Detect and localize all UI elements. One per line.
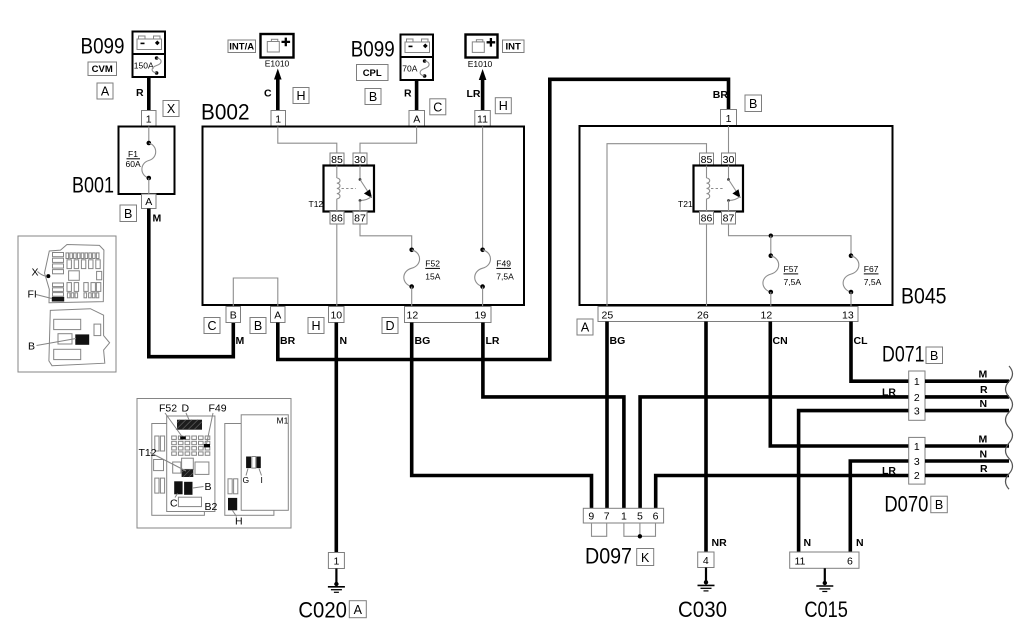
wire (B002 internal) relay 86 to pin 10 [336,224,338,306]
connector H highlighted [228,498,237,510]
svg-text:C030: C030 [678,597,727,622]
wire N right of D070 pin 3 [925,459,1009,463]
svg-text:B045: B045 [901,284,947,309]
svg-text:B099: B099 [81,34,125,59]
svg-text:13: 13 [842,310,854,322]
svg-text:A: A [274,310,281,322]
svg-text:INT/A: INT/A [229,42,254,53]
ground point E1010 (INT/A) [261,34,294,69]
pin A of B002 (top) [409,111,425,127]
svg-text:60A: 60A [126,159,141,169]
svg-text:1: 1 [275,114,281,126]
label INT/A [228,40,256,53]
svg-text:C: C [264,88,272,100]
label A (boxed) at C020 [349,601,366,618]
svg-text:D097: D097 [585,544,632,569]
svg-text:C020: C020 [298,597,347,622]
svg-text:C: C [433,100,442,114]
svg-text:M1: M1 [277,416,289,426]
wire BG from B045 pin 25 to D097 pin 7 [605,322,609,509]
label CPL [357,65,389,81]
svg-text:CVM: CVM [92,64,113,75]
wire CN from B045 pin 12 to D070 pin 1 [770,322,908,447]
svg-text:26: 26 [697,310,709,322]
svg-text:B: B [254,319,262,333]
connector G/I [246,457,251,469]
pin 10 of B002 (bottom) [329,307,345,323]
svg-text:15A: 15A [425,271,440,281]
label B (boxed) under B002 [250,318,266,334]
label B (boxed) at D070 [931,496,948,513]
svg-text:7: 7 [604,511,610,523]
svg-text:INT: INT [506,42,522,53]
wire M right of D070 pin 1 [925,444,1009,448]
fuse F67 7,5A [843,253,881,306]
svg-text:BG: BG [610,335,626,347]
relay C (black) [174,481,182,494]
inset: B002 fuse/relay location drawing [137,399,291,529]
label B (boxed) at B045 pin 1 [745,95,762,112]
wire break squiggle at right edge [1006,366,1013,489]
svg-text:F57: F57 [784,264,799,274]
relay T21 [678,153,743,225]
svg-text:E1010: E1010 [265,59,290,69]
svg-text:F1: F1 [128,149,138,159]
svg-text:CPL: CPL [363,68,382,79]
label A (boxed) [97,83,113,99]
svg-text:86: 86 [331,213,343,225]
svg-text:CL: CL [854,335,869,347]
label B (boxed) [120,205,137,222]
bridge D097 pins 9-7 [592,523,607,536]
wire N from D070 pin 3 to C015 pin 6 [850,461,908,552]
svg-text:LR: LR [486,335,500,347]
svg-text:K: K [641,551,650,565]
svg-text:X: X [167,102,176,116]
label C (boxed) under B002 [204,318,220,334]
svg-text:T21: T21 [678,199,693,209]
label INT [503,40,525,53]
fusebox outline (top drawing) [45,245,104,303]
svg-text:A: A [354,603,363,617]
svg-text:I: I [261,475,263,485]
fuse grid [172,436,177,439]
label B (boxed) [365,89,381,105]
wire M right of D071 pin 1 [925,379,1009,383]
svg-text:86: 86 [701,213,713,225]
svg-text:A: A [581,321,590,335]
socket B2 [178,497,201,506]
svg-text:2: 2 [914,470,920,482]
wire N from D071 pin 3 to C015 pin 11 [799,411,909,552]
svg-text:NR: NR [712,537,728,549]
svg-text:B: B [749,97,757,111]
svg-text:1: 1 [621,511,627,523]
battery B099 (CPL) with 70A fuse [401,35,434,81]
wire (B002 internal) pinA to relay 30 [360,127,417,154]
relay B (black) [184,482,192,495]
svg-text:M: M [979,433,988,445]
svg-text:BR: BR [713,89,729,101]
svg-text:B: B [369,90,377,104]
svg-text:C015: C015 [804,597,848,622]
right rear panel [225,424,274,516]
label D (boxed) under B002 [382,318,398,334]
svg-text:11: 11 [477,114,488,126]
svg-text:9: 9 [588,511,594,523]
label A (boxed) under B045 [577,319,593,335]
wire LR arrow to E1010 [467,69,487,111]
wire LR from D097 pin 6 to D070 pin 2 [656,476,909,509]
svg-text:7,5A: 7,5A [496,271,514,281]
svg-text:FI: FI [28,289,37,301]
svg-text:A: A [145,196,152,208]
wire LR from B002 pin 19 to D097 pin 1 [483,323,624,509]
wire (B045 internal) relay 85 up-left to pin 25 [607,144,707,306]
svg-text:6: 6 [847,556,853,568]
svg-text:85: 85 [331,154,343,166]
wire (B045 internal) relay 87 to F57/F67 [729,224,852,256]
svg-text:1: 1 [914,376,920,388]
svg-text:T12: T12 [309,199,324,209]
fuse F57 7,5A [763,253,801,306]
svg-text:H: H [311,319,320,333]
wire (B002 internal) relay 87 to F52 [360,224,412,250]
wire N right of D071 pin 3 [925,409,1009,413]
svg-text:19: 19 [475,310,487,322]
svg-text:R: R [980,384,988,396]
label CVM [88,62,117,76]
svg-text:C: C [170,498,178,510]
connector D071 [909,371,925,420]
fuse F1 60A [126,127,156,195]
svg-text:BR: BR [280,335,296,347]
bridge D097 pins 1-5-6 [624,523,656,536]
battery B099 (CVM) with 150A fuse [133,32,166,78]
wire R right of D070 pin 2 [925,474,1009,478]
svg-text:F49: F49 [209,403,227,415]
svg-text:H: H [296,89,305,103]
relay T12 [309,153,375,225]
fuse F49 highlighted [204,444,210,447]
svg-text:7,5A: 7,5A [784,277,802,287]
relay sockets row [173,462,181,473]
svg-text:N: N [804,537,812,549]
svg-text:D071: D071 [882,342,925,367]
module M1 panel [241,415,288,511]
wire M from B001 to B002 pin B [149,209,234,357]
svg-text:7,5A: 7,5A [864,277,882,287]
svg-text:12: 12 [407,310,419,322]
svg-text:B001: B001 [72,173,114,198]
svg-text:BG: BG [415,335,431,347]
wire N from B002 pin 10 to C020 [334,323,338,553]
relay plate outline (bottom drawing) [49,309,110,366]
svg-text:H: H [499,99,508,113]
svg-text:B: B [230,310,237,322]
ground point E1010 (INT) [466,35,498,70]
label H (boxed) [495,98,511,114]
svg-text:1: 1 [726,113,732,125]
label C (boxed) [430,99,446,115]
pin 1 of B001 [142,111,157,127]
fuse F52 15A [404,248,441,307]
svg-text:LR: LR [882,465,896,477]
svg-text:3: 3 [914,456,920,468]
svg-text:C: C [207,319,216,333]
label K (boxed) at D097 [637,549,654,566]
wire R battery to B002 pin A [415,80,419,111]
svg-text:D: D [385,319,394,333]
svg-text:G: G [243,475,250,485]
wire R battery to B001 [147,77,151,111]
svg-text:M: M [979,369,988,381]
wire (B002 internal) bridge pin B to pin A [233,278,277,306]
wire R right of D071 pin 2 [925,395,1009,399]
wire (B045 internal) pin1 to relay 30 [728,126,730,153]
svg-text:12: 12 [761,310,773,322]
svg-text:1: 1 [146,114,152,126]
wire C arrow to E1010 [264,69,282,111]
svg-text:4: 4 [703,555,709,567]
svg-text:87: 87 [723,213,735,225]
svg-text:LR: LR [882,386,896,398]
svg-text:5: 5 [637,511,643,523]
svg-text:F52: F52 [159,403,177,415]
connector D070 [909,437,925,484]
pin 1 of B002 (top) [271,111,286,127]
svg-text:D: D [182,403,190,415]
pins 25/26/12/13 of B045 (bottom) [598,307,858,322]
svg-text:A: A [413,114,420,126]
svg-text:F52: F52 [425,258,440,268]
svg-text:30: 30 [354,154,366,166]
relay T12 highlighted (hatched) [182,469,194,477]
fuse F52 highlighted [180,436,186,439]
svg-text:X: X [32,267,39,279]
svg-text:30: 30 [723,154,735,166]
junction unit B045 box [580,126,893,305]
ground C020 [328,553,344,569]
svg-text:T12: T12 [139,447,157,459]
svg-text:N: N [980,448,988,460]
wire BG from B002 pin 12 to D097 pin 9 [412,323,592,509]
svg-text:M: M [153,213,162,225]
pin 1 of B045 (top) [721,110,737,127]
centre front panel (fuse holder) [167,416,215,512]
svg-text:B: B [205,481,212,493]
svg-text:B002: B002 [201,100,250,125]
svg-text:B: B [28,341,35,353]
svg-text:11: 11 [795,556,806,568]
junction dot at F57 [769,234,773,238]
relay D (hatched) [177,420,202,430]
svg-text:R: R [980,463,988,475]
svg-text:R: R [404,88,412,100]
svg-text:3: 3 [914,406,920,418]
svg-text:10: 10 [330,310,342,322]
label X (boxed) [163,101,179,117]
fusebox B001 [119,127,175,195]
fusebox slots [53,253,64,257]
svg-text:B2: B2 [205,501,218,513]
svg-text:1: 1 [914,441,920,453]
svg-text:6: 6 [653,511,659,523]
pin A of B001 [142,194,157,209]
svg-text:F49: F49 [496,258,511,268]
svg-text:70A: 70A [402,64,417,74]
svg-text:CN: CN [773,335,788,347]
left rear panel [152,424,205,516]
svg-text:25: 25 [602,310,614,322]
svg-text:87: 87 [354,213,366,225]
pin A of B002 (bottom) [271,307,286,323]
svg-text:B: B [930,349,938,363]
svg-text:B099: B099 [351,36,395,61]
svg-text:B: B [124,207,132,221]
svg-text:N: N [340,335,348,347]
body computer B002 box [203,127,525,306]
svg-text:H: H [235,516,243,528]
svg-text:E1010: E1010 [468,59,493,69]
fuse F1 highlighted (black) [52,297,64,302]
svg-text:F67: F67 [864,264,879,274]
svg-text:B: B [935,498,943,512]
connector D097 [583,508,663,523]
svg-text:D070: D070 [884,491,928,516]
svg-text:150A: 150A [134,61,154,71]
wire CL from B045 pin 13 to D071 pin 1 [851,322,909,382]
svg-text:A: A [101,85,110,99]
pins 12/19 of B002 (bottom) [405,307,492,323]
wire (B002 internal) pin11 down to F49 [482,127,484,250]
wire BR from B002 pin A to B045 pin 1 [278,79,729,359]
wire LR from D097 pin 5 to D071 pin 2 [640,397,909,508]
pin 11 of B002 (top) [475,111,491,127]
svg-text:M: M [236,335,245,347]
wire (B045 internal) relay 86 to pin 26 [706,224,708,306]
label H (boxed) [293,88,309,104]
wire NR from B045 pin 26 to C030 [704,322,708,553]
inset: B001/B099 location drawing [18,236,116,372]
svg-text:LR: LR [467,88,481,100]
svg-text:R: R [136,87,144,99]
svg-text:N: N [980,398,988,410]
label H (boxed) under B002 [308,318,324,334]
fuse F49 7,5A [475,248,514,307]
svg-text:1: 1 [333,556,339,568]
svg-text:2: 2 [914,392,920,404]
wire (B002 internal) pin1 to relay 85 [278,127,337,154]
svg-text:85: 85 [701,154,713,166]
label B (boxed) at D071 [926,347,943,364]
svg-text:N: N [856,537,864,549]
pin B of B002 (bottom) [226,307,241,323]
